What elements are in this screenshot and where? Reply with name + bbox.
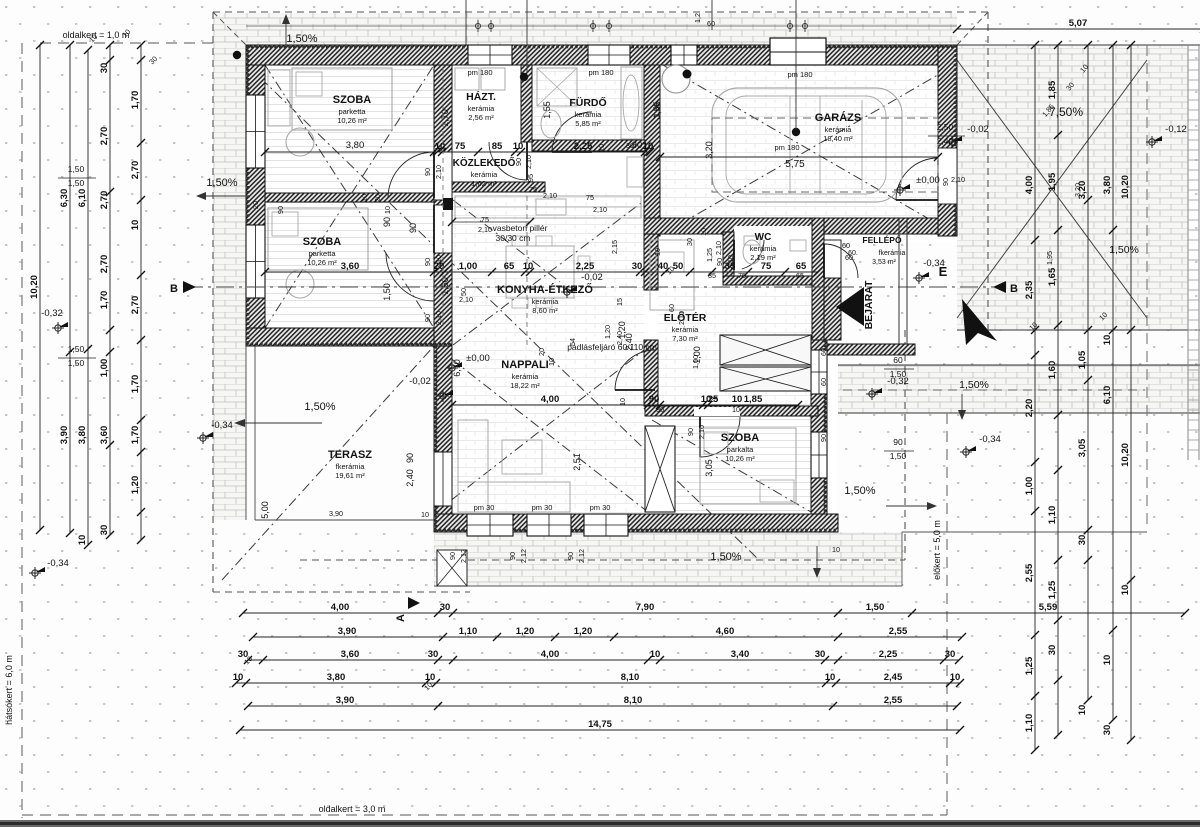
roof diagonal nappali xyxy=(436,347,648,512)
svg-text:vasbeton pillér: vasbeton pillér xyxy=(493,223,548,233)
svg-text:2,56 m²: 2,56 m² xyxy=(468,113,494,122)
window nappali south 1 xyxy=(467,514,513,536)
window szoba3 east 1 xyxy=(811,350,827,394)
svg-text:2,15: 2,15 xyxy=(610,240,619,254)
toilet furdo xyxy=(541,110,561,138)
plot dashed left vertical xyxy=(212,12,214,592)
terrace bottom dim line xyxy=(255,519,434,521)
svg-text:1,70: 1,70 xyxy=(130,426,141,445)
svg-text:3,80: 3,80 xyxy=(346,140,365,151)
svg-text:20: 20 xyxy=(251,201,260,209)
nappali west wall xyxy=(434,346,452,532)
insulation scallop north xyxy=(246,46,957,49)
svg-text:10: 10 xyxy=(643,141,654,152)
svg-text:2,55: 2,55 xyxy=(884,695,903,706)
insulation scallop south-main xyxy=(434,529,838,532)
svg-text:30: 30 xyxy=(428,649,439,660)
svg-text:2,12: 2,12 xyxy=(577,549,586,563)
closet elotere upper xyxy=(720,335,811,365)
svg-text:kerámia: kerámia xyxy=(532,297,560,306)
window small north xyxy=(671,45,697,65)
svg-text:10: 10 xyxy=(1077,705,1088,716)
pillar vasbeton xyxy=(443,198,453,210)
dim chain right col3 xyxy=(1087,45,1089,700)
svg-text:1,25: 1,25 xyxy=(1047,580,1058,599)
svg-text:10: 10 xyxy=(360,194,369,202)
door opening szoba2 xyxy=(434,205,452,253)
dim chain left col5 xyxy=(140,45,142,540)
svg-text:1,85: 1,85 xyxy=(1047,80,1058,99)
svg-text:fkerámia: fkerámia xyxy=(879,250,906,257)
door arc wc xyxy=(742,240,764,269)
svg-text:1,60: 1,60 xyxy=(1047,361,1058,380)
svg-text:NAPPALI: NAPPALI xyxy=(501,359,548,371)
driveway slope diagonal a xyxy=(957,60,1147,318)
wc west wall xyxy=(723,232,734,285)
svg-text:65: 65 xyxy=(796,271,804,280)
svg-text:1,00: 1,00 xyxy=(1024,477,1035,496)
attic ladder box xyxy=(645,426,675,512)
dim chain right col1 xyxy=(1034,45,1036,750)
svg-text:1,95: 1,95 xyxy=(1045,251,1054,265)
plot dashed top xyxy=(213,11,988,13)
garage side door opening xyxy=(938,148,957,204)
svg-text:8,10: 8,10 xyxy=(624,695,643,706)
dim row bathroom xyxy=(437,151,650,153)
axis line hazt xyxy=(465,0,467,45)
svg-text:1,70: 1,70 xyxy=(130,375,141,394)
svg-text:1,50%: 1,50% xyxy=(959,379,989,391)
svg-text:90: 90 xyxy=(382,217,392,227)
door opening szoba3 xyxy=(694,407,740,416)
svg-text:2,35: 2,35 xyxy=(1024,280,1035,299)
svg-text:3,53 m²: 3,53 m² xyxy=(872,259,896,266)
svg-text:2,45: 2,45 xyxy=(884,672,903,683)
svg-text:90: 90 xyxy=(686,428,695,436)
sofa nappali xyxy=(458,420,488,512)
svg-text:10: 10 xyxy=(732,394,743,405)
bottom boundary rough band xyxy=(0,820,1200,827)
svg-text:3,40: 3,40 xyxy=(731,649,750,660)
svg-text:30: 30 xyxy=(632,261,643,272)
svg-text:1,00: 1,00 xyxy=(99,359,110,378)
svg-text:30/30 cm: 30/30 cm xyxy=(496,233,531,243)
svg-text:2,25: 2,25 xyxy=(576,261,595,272)
dim chain bottom row2 xyxy=(253,636,962,638)
svg-text:7,90: 7,90 xyxy=(636,602,655,613)
svg-text:2,40: 2,40 xyxy=(937,136,954,146)
floor parquet szoba1 xyxy=(265,65,434,193)
svg-text:pm 30: pm 30 xyxy=(532,503,553,512)
svg-text:SZOBA: SZOBA xyxy=(333,94,372,106)
axis line 1 xyxy=(711,0,713,30)
building interior white xyxy=(246,45,957,242)
dim chain left col1 xyxy=(39,45,41,530)
svg-text:1,50: 1,50 xyxy=(866,602,885,613)
svg-text:60: 60 xyxy=(893,355,903,365)
svg-text:TERASZ: TERASZ xyxy=(328,449,372,461)
corridor west door opening xyxy=(434,152,452,200)
svg-text:10,20: 10,20 xyxy=(29,275,40,299)
axis line kitchen wall xyxy=(526,0,528,73)
svg-text:HÁZT.: HÁZT. xyxy=(466,90,496,103)
hazt fur wall xyxy=(521,65,532,142)
svg-text:pm 30: pm 30 xyxy=(474,503,495,512)
svg-text:1,50: 1,50 xyxy=(68,178,85,188)
paving strip south of building xyxy=(434,532,902,586)
bed szoba1 xyxy=(292,68,392,130)
svg-text:10: 10 xyxy=(130,220,141,231)
svg-text:pm 30: pm 30 xyxy=(590,503,611,512)
svg-text:10: 10 xyxy=(383,206,392,214)
svg-text:1,65: 1,65 xyxy=(1047,267,1058,286)
svg-text:5,75: 5,75 xyxy=(785,159,805,170)
svg-text:3,80: 3,80 xyxy=(77,426,88,445)
paving strip above north wall xyxy=(213,13,957,45)
svg-text:30: 30 xyxy=(1102,725,1113,736)
svg-text:20: 20 xyxy=(373,194,382,202)
garage east wall xyxy=(938,45,957,236)
closet elotere lower xyxy=(720,367,811,391)
svg-text:10,20: 10,20 xyxy=(1120,443,1131,467)
window szoba2 west xyxy=(246,225,265,298)
garage dashed platform xyxy=(712,118,938,192)
flag -0,34 fellepo xyxy=(913,272,925,284)
property line oldalkert top xyxy=(40,42,213,44)
svg-text:6,10: 6,10 xyxy=(1102,386,1113,405)
svg-text:1,50: 1,50 xyxy=(68,358,85,368)
svg-text:10: 10 xyxy=(1102,655,1113,666)
svg-text:1,50: 1,50 xyxy=(890,451,907,461)
junction dot 3 xyxy=(792,128,800,136)
svg-text:4,60: 4,60 xyxy=(716,626,735,637)
svg-text:10: 10 xyxy=(653,248,662,256)
svg-text:15: 15 xyxy=(615,298,624,306)
svg-text:6,70: 6,70 xyxy=(452,359,462,377)
svg-text:90: 90 xyxy=(715,258,724,266)
svg-text:2,10: 2,10 xyxy=(951,175,965,184)
boiler circle xyxy=(662,65,690,93)
svg-text:-0,34: -0,34 xyxy=(211,420,233,431)
svg-text:hátsókert = 6,0 m: hátsókert = 6,0 m xyxy=(4,655,14,725)
svg-text:2,10: 2,10 xyxy=(434,165,443,179)
svg-text:2,10: 2,10 xyxy=(478,225,492,234)
svg-text:10,20: 10,20 xyxy=(1120,175,1131,199)
svg-text:KÖZLEKEDŐ: KÖZLEKEDŐ xyxy=(453,156,516,169)
steps east of fellepo xyxy=(898,218,900,344)
svg-text:parkalta: parkalta xyxy=(727,445,755,454)
svg-text:B: B xyxy=(1010,283,1018,295)
svg-text:kerámia: kerámia xyxy=(575,110,603,119)
svg-text:30: 30 xyxy=(685,238,694,246)
roof diagonal szoba3 xyxy=(652,420,811,512)
flag -0,34 walkway xyxy=(960,446,972,458)
svg-text:pm 180: pm 180 xyxy=(467,68,492,77)
axis line garage door xyxy=(795,0,797,130)
svg-text:2,40: 2,40 xyxy=(405,469,415,487)
svg-text:±0,00: ±0,00 xyxy=(466,353,490,364)
svg-text:2,10: 2,10 xyxy=(543,191,557,200)
svg-text:2,10: 2,10 xyxy=(593,205,607,214)
svg-text:1,95: 1,95 xyxy=(1047,172,1058,191)
roof diagonal terrace xyxy=(222,346,434,580)
floor parquet szoba2 xyxy=(265,202,434,328)
svg-text:54: 54 xyxy=(568,338,577,346)
garage door xyxy=(770,38,826,65)
svg-text:1,20: 1,20 xyxy=(516,626,535,637)
flag -0,32 walkway xyxy=(866,388,878,400)
svg-text:1,20: 1,20 xyxy=(574,626,593,637)
svg-text:10: 10 xyxy=(618,398,627,406)
svg-text:1,00: 1,00 xyxy=(459,261,478,272)
corridor dim row xyxy=(452,221,530,223)
svg-text:3,60: 3,60 xyxy=(341,261,360,272)
svg-text:-0,02: -0,02 xyxy=(967,124,989,135)
svg-text:2,70: 2,70 xyxy=(130,296,141,315)
slope arrow top xyxy=(285,20,287,46)
svg-text:2,55: 2,55 xyxy=(889,626,908,637)
door arc hazt xyxy=(489,142,527,180)
driveway slope diagonal b xyxy=(957,60,1147,318)
svg-text:3,20: 3,20 xyxy=(704,141,714,159)
svg-text:90: 90 xyxy=(408,223,418,233)
floor tile furdo xyxy=(532,65,644,140)
svg-text:85: 85 xyxy=(492,141,503,152)
window nappali south 3 xyxy=(584,514,628,536)
garage south wall xyxy=(644,218,957,234)
window hazt north xyxy=(468,45,512,65)
svg-text:1,10: 1,10 xyxy=(1047,506,1058,525)
property dashed far right xyxy=(1146,45,1148,530)
svg-text:1,50%: 1,50% xyxy=(710,551,741,563)
svg-text:4,00: 4,00 xyxy=(541,394,560,405)
svg-text:előkert = 5,0 m: előkert = 5,0 m xyxy=(932,520,942,580)
svg-text:75: 75 xyxy=(761,261,772,272)
window szoba1 west xyxy=(246,95,265,168)
entrance arrow xyxy=(836,287,864,326)
svg-text:10: 10 xyxy=(699,228,708,236)
svg-text:kerámia: kerámia xyxy=(471,170,499,179)
svg-text:19,61 m²: 19,61 m² xyxy=(335,471,365,480)
svg-text:1,20: 1,20 xyxy=(603,325,612,339)
svg-text:1,85: 1,85 xyxy=(744,394,763,405)
svg-text:90: 90 xyxy=(649,394,660,405)
entrance door opening xyxy=(824,240,841,278)
svg-text:90: 90 xyxy=(423,314,432,322)
dim chain left col4 xyxy=(109,45,111,535)
svg-text:90: 90 xyxy=(276,206,285,214)
roof diagonal garage X b xyxy=(663,65,955,234)
svg-text:2,50: 2,50 xyxy=(937,122,954,132)
dim chain bottom row4 xyxy=(236,682,960,684)
floor tile nappali xyxy=(452,346,644,514)
corridor wall dashed axis xyxy=(442,68,444,328)
svg-text:30: 30 xyxy=(99,63,110,74)
dim row nappali xyxy=(452,404,798,406)
furdo south wall xyxy=(532,140,645,151)
dim row kitchen xyxy=(265,271,818,273)
svg-text:±0,00: ±0,00 xyxy=(916,175,940,186)
svg-text:10,26 m²: 10,26 m² xyxy=(307,258,337,267)
svg-text:5,00: 5,00 xyxy=(260,501,270,519)
svg-text:3,20: 3,20 xyxy=(1073,183,1082,197)
svg-text:FÜRDŐ: FÜRDŐ xyxy=(569,96,606,109)
section line B xyxy=(185,286,1000,288)
svg-text:20: 20 xyxy=(537,348,546,356)
svg-text:pm 180: pm 180 xyxy=(774,143,799,152)
svg-text:30: 30 xyxy=(440,602,451,613)
svg-text:10: 10 xyxy=(233,672,244,683)
dim chain right col2 xyxy=(1057,45,1059,735)
property line left vertical xyxy=(21,43,23,818)
kitchen counter xyxy=(455,196,641,218)
dim chain 5,07 xyxy=(957,28,1200,30)
svg-text:2,70: 2,70 xyxy=(99,127,110,146)
svg-text:10: 10 xyxy=(547,358,556,366)
svg-text:5,59: 5,59 xyxy=(1039,602,1058,613)
door arc entrance xyxy=(824,244,858,278)
dim chain right col4 xyxy=(1112,45,1114,720)
svg-text:1,25: 1,25 xyxy=(705,248,714,262)
roof overhang dashed bottom xyxy=(300,559,905,561)
terrace floor xyxy=(246,346,434,520)
corner dashed diagonal xyxy=(957,12,988,45)
svg-text:1,10: 1,10 xyxy=(459,626,478,637)
svg-text:1,50%: 1,50% xyxy=(206,177,237,189)
svg-text:3,80: 3,80 xyxy=(327,672,346,683)
window szoba3 east 2 xyxy=(811,432,827,478)
svg-text:10: 10 xyxy=(523,261,534,272)
corner dashed diagonal nw xyxy=(213,12,246,45)
svg-text:35: 35 xyxy=(708,271,716,280)
svg-text:oldalkert = 3,0 m: oldalkert = 3,0 m xyxy=(319,804,386,814)
svg-text:2,25: 2,25 xyxy=(879,649,898,660)
kitchen east counter xyxy=(650,240,694,310)
svg-text:10,26 m²: 10,26 m² xyxy=(337,116,367,125)
svg-text:1,50%: 1,50% xyxy=(1109,244,1139,256)
svg-text:1,20: 1,20 xyxy=(130,476,141,495)
svg-text:18,40 m²: 18,40 m² xyxy=(823,134,853,143)
svg-text:90: 90 xyxy=(508,552,517,560)
washer hazt xyxy=(455,68,479,90)
svg-text:2,70: 2,70 xyxy=(130,161,141,180)
svg-text:-0,34: -0,34 xyxy=(47,558,69,569)
flag -0,02 kitchen xyxy=(561,286,573,298)
svg-text:6,30: 6,30 xyxy=(59,189,70,208)
dining table xyxy=(506,246,574,298)
svg-text:1,00: 1,00 xyxy=(691,355,700,369)
svg-text:KONYHA-ÉTKEZŐ: KONYHA-ÉTKEZŐ xyxy=(497,283,593,296)
svg-text:1,25: 1,25 xyxy=(1024,656,1035,675)
svg-text:2,70: 2,70 xyxy=(99,255,110,274)
svg-text:90: 90 xyxy=(423,258,432,266)
svg-text:3,90: 3,90 xyxy=(336,695,355,706)
svg-text:kerámia: kerámia xyxy=(512,372,540,381)
window nappali south 2 xyxy=(527,514,571,536)
svg-text:1,50%: 1,50% xyxy=(286,33,317,45)
svg-text:75: 75 xyxy=(738,271,746,280)
svg-text:1,70: 1,70 xyxy=(130,91,141,110)
junction dot 2 xyxy=(520,73,528,81)
svg-text:-0,12: -0,12 xyxy=(1165,124,1187,135)
property line front vertical xyxy=(946,413,948,815)
door arc szoba3 xyxy=(700,417,740,457)
svg-text:90: 90 xyxy=(423,168,432,176)
door arc elotere xyxy=(615,350,655,390)
svg-text:pm 180: pm 180 xyxy=(787,70,812,79)
svg-text:parketta: parketta xyxy=(338,107,366,116)
insulation scallop nappali-west xyxy=(435,346,438,532)
south wall bedroom block xyxy=(246,328,452,346)
svg-text:1,50: 1,50 xyxy=(68,344,85,354)
north wall xyxy=(246,45,957,65)
flag -0,02 nappali xyxy=(437,390,449,402)
dim chain bottom row3 xyxy=(248,659,959,661)
svg-text:10: 10 xyxy=(513,141,524,152)
svg-text:1,2: 1,2 xyxy=(693,13,702,23)
svg-text:5,07: 5,07 xyxy=(1069,18,1088,29)
svg-text:1,05: 1,05 xyxy=(1077,350,1088,369)
svg-text:60: 60 xyxy=(819,378,828,386)
svg-text:2,10: 2,10 xyxy=(434,311,443,325)
svg-text:10,26 m²: 10,26 m² xyxy=(725,454,755,463)
roof diagonal garage X a xyxy=(663,65,955,234)
svg-text:FELLÉPŐ: FELLÉPŐ xyxy=(862,234,902,245)
elotere east wall xyxy=(812,218,824,340)
svg-text:18,22 m²: 18,22 m² xyxy=(510,381,540,390)
svg-text:90: 90 xyxy=(448,552,457,560)
door terrace nappali xyxy=(434,452,452,506)
svg-text:1,50%: 1,50% xyxy=(844,485,875,497)
property line bottom xyxy=(22,814,947,816)
svg-text:fkerámia: fkerámia xyxy=(336,462,366,471)
svg-text:60: 60 xyxy=(819,348,828,356)
roof diagonal bedroom X b xyxy=(265,65,434,328)
svg-text:3,90: 3,90 xyxy=(59,426,70,445)
west wall xyxy=(246,65,265,346)
dim chain bottom row6 xyxy=(240,729,960,731)
svg-text:2,70: 2,70 xyxy=(99,191,110,210)
svg-text:2,10: 2,10 xyxy=(524,155,533,169)
door arc szoba2 xyxy=(386,253,434,301)
svg-text:10: 10 xyxy=(732,405,740,414)
svg-text:BEJÁRAT: BEJÁRAT xyxy=(862,280,875,329)
svg-text:60: 60 xyxy=(842,241,850,250)
window axis line top xyxy=(246,25,957,27)
svg-text:95: 95 xyxy=(526,174,535,182)
szoba3 east wall xyxy=(811,340,827,514)
svg-text:75: 75 xyxy=(529,185,537,194)
svg-text:-0,02: -0,02 xyxy=(409,376,431,387)
insulation scallop south-bed xyxy=(246,343,452,346)
roof overhang dashed terrace xyxy=(213,591,470,593)
flag -0,12 right xyxy=(1146,136,1158,148)
elotere west wall xyxy=(644,234,658,290)
svg-text:2,12: 2,12 xyxy=(519,549,528,563)
section marker A bottom xyxy=(408,597,420,609)
south wall main xyxy=(434,514,838,532)
svg-text:3,90: 3,90 xyxy=(338,626,357,637)
svg-text:90: 90 xyxy=(819,434,828,442)
shower furdo xyxy=(537,68,577,106)
flag -0,34 left mid xyxy=(197,432,209,444)
svg-text:60.: 60. xyxy=(845,253,855,262)
svg-text:5,85 m²: 5,85 m² xyxy=(575,119,601,128)
corridor south wall xyxy=(449,182,545,192)
roof diagonal kitchen b xyxy=(453,200,560,282)
driveway paving east of garage xyxy=(957,45,1188,330)
svg-text:1,50: 1,50 xyxy=(890,369,907,379)
